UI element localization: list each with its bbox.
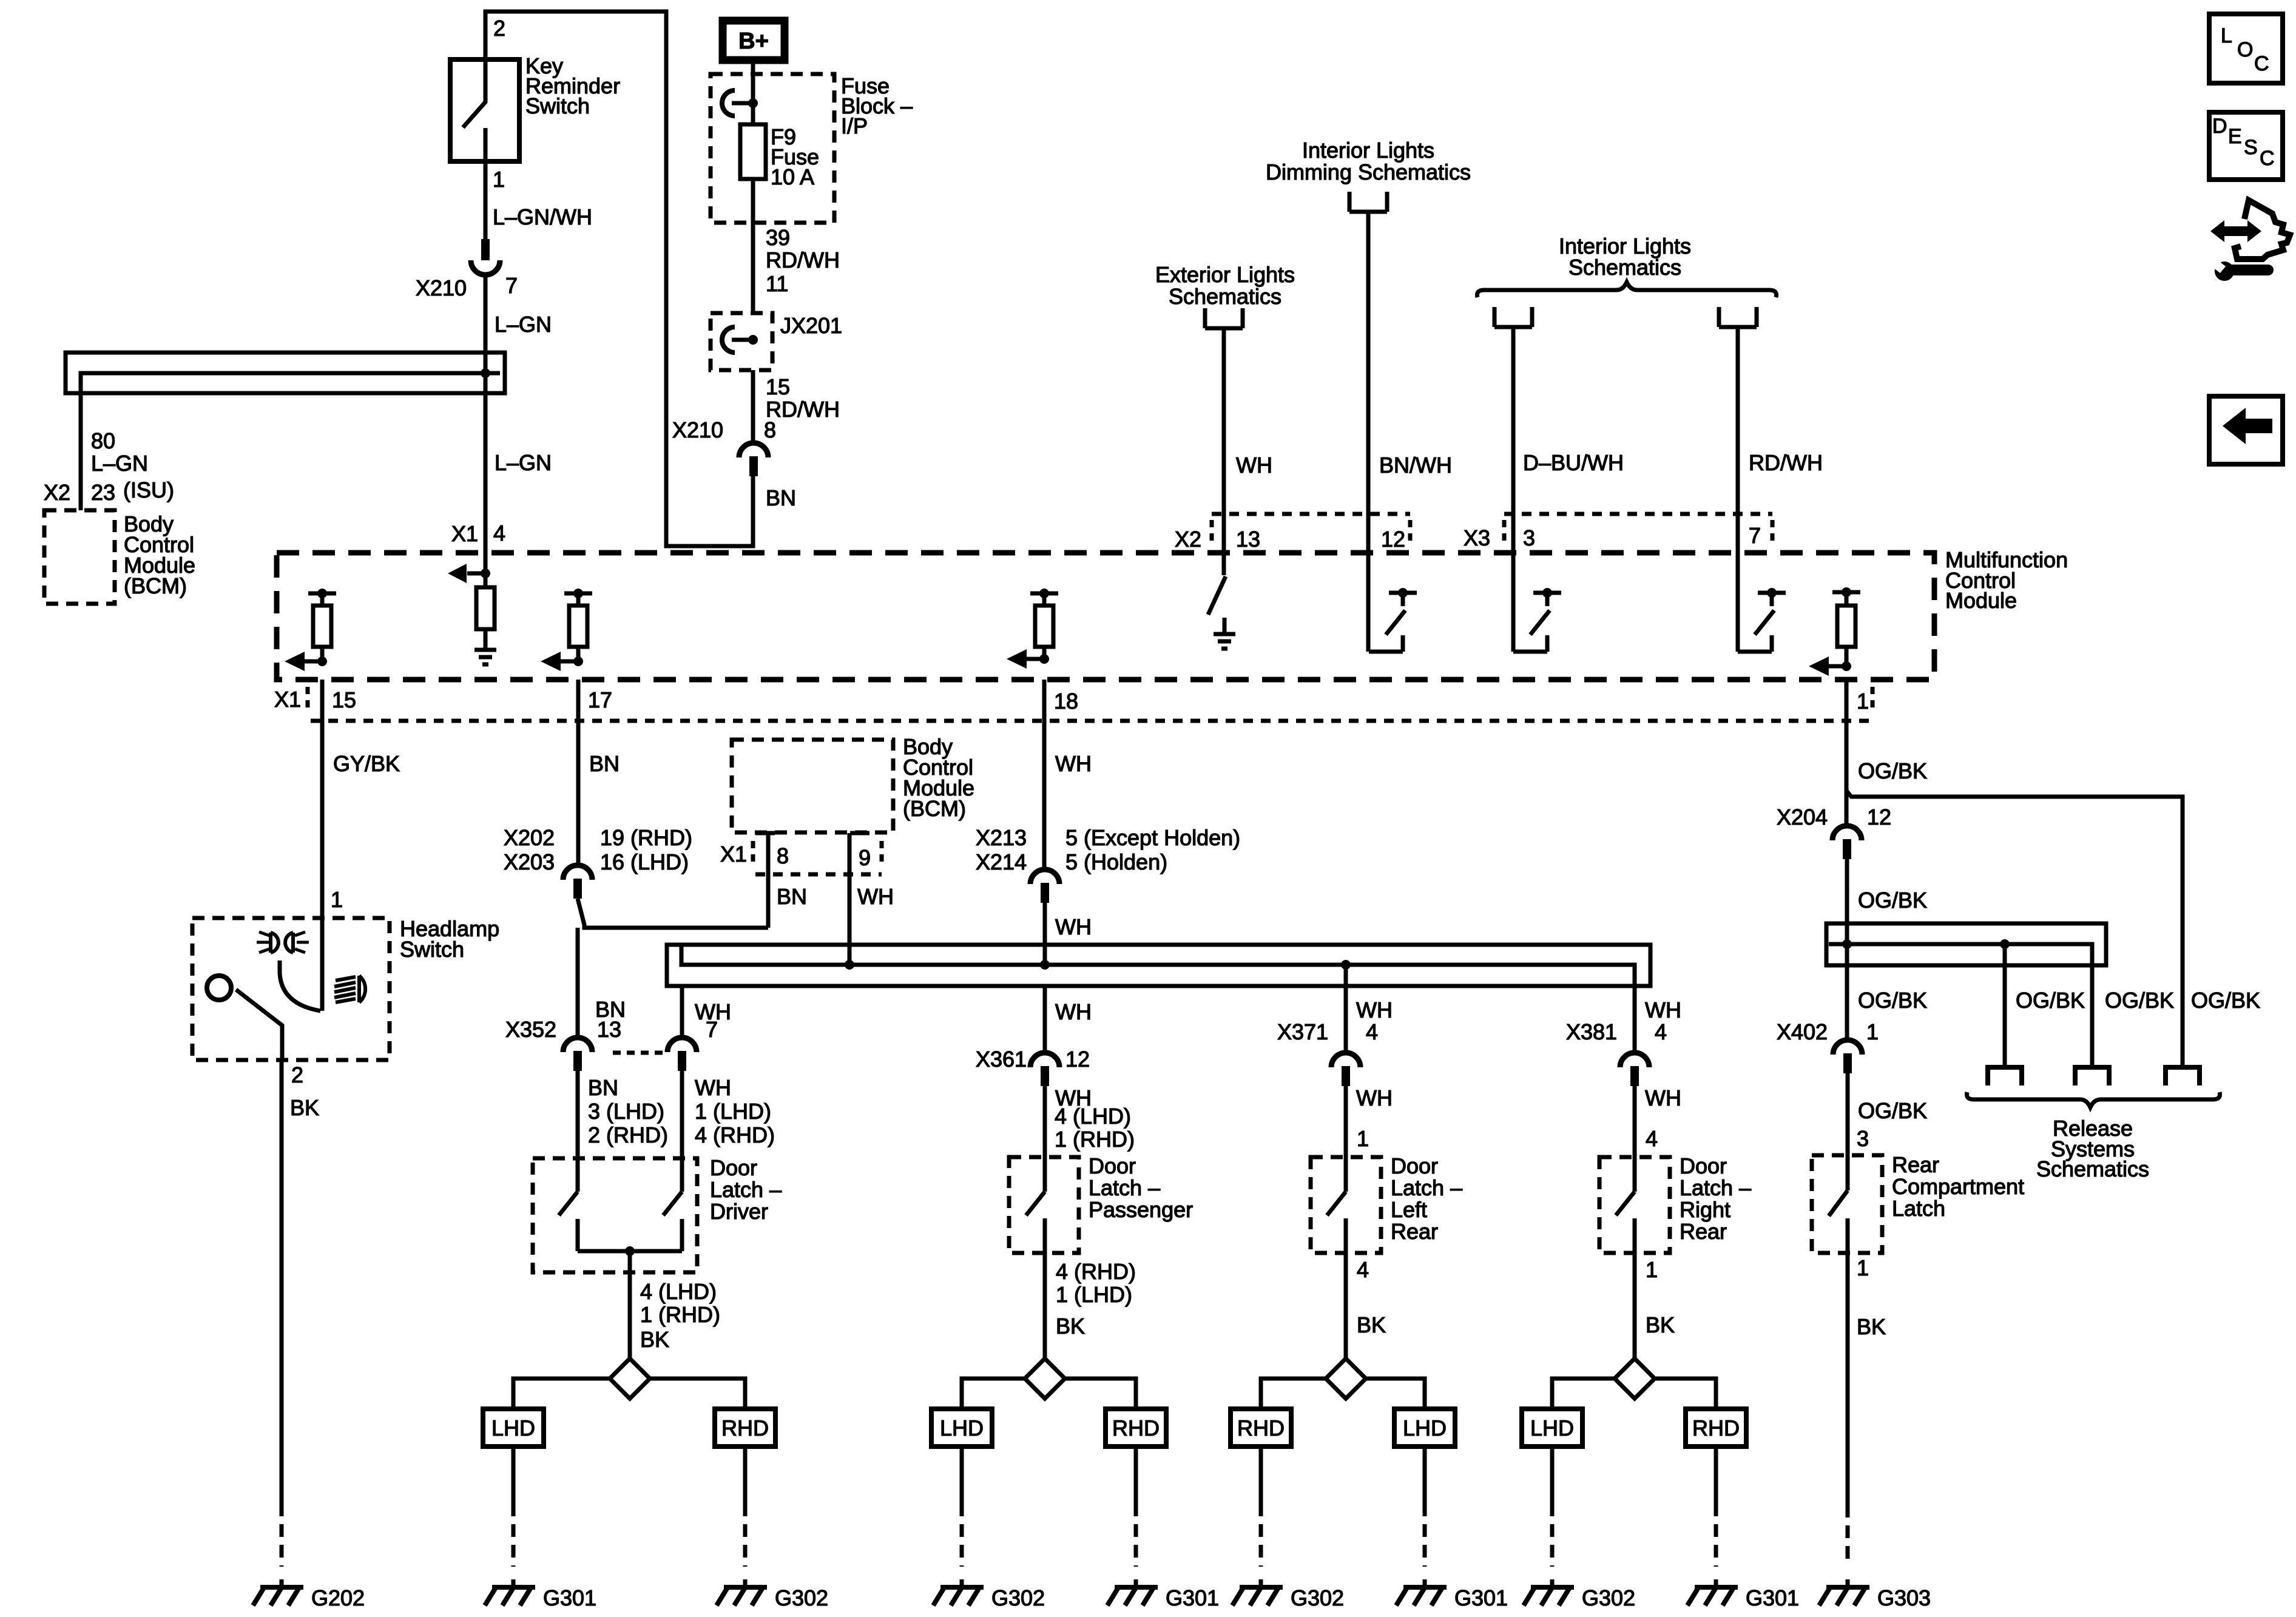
separator dots right of pin 1 <box>1871 687 1875 714</box>
label BN pin17 <box>589 751 620 776</box>
left rear latch blade <box>1327 1192 1346 1215</box>
svg-text:1: 1 <box>1866 1019 1879 1044</box>
svg-text:G301: G301 <box>1454 1585 1508 1610</box>
label RD/WH right <box>1749 450 1823 475</box>
svg-text:D: D <box>2212 115 2227 138</box>
svg-text:7: 7 <box>706 1017 718 1042</box>
svg-text:Switch: Switch <box>400 937 464 962</box>
label WH above X352-7 <box>695 999 731 1024</box>
svg-text:LHD: LHD <box>1403 1416 1447 1440</box>
connector X371 <box>1331 1053 1360 1086</box>
svg-text:X1: X1 <box>720 842 747 866</box>
svg-text:X203: X203 <box>504 849 555 874</box>
wire GY/BK MCM X1-15 to headlamp switch <box>320 680 325 1011</box>
fuse clip in JX201 <box>722 327 758 353</box>
svg-text:12: 12 <box>1381 527 1405 552</box>
svg-text:BK: BK <box>640 1327 669 1352</box>
label pin 12 X361 <box>1065 1047 1090 1072</box>
head lamp icon <box>334 976 365 1002</box>
wire RHD passenger to ground <box>1134 1447 1138 1567</box>
rear latch blade <box>1829 1190 1848 1216</box>
wire L-GN from X210-7 to MCM X1-4 <box>484 275 488 553</box>
wire X402 to rear latch <box>1846 1073 1850 1190</box>
label pin 4 top <box>493 521 505 545</box>
label OG/BK drop right <box>2191 988 2260 1013</box>
svg-text:L–GN/WH: L–GN/WH <box>493 204 592 229</box>
branch wires left rear <box>1261 1379 1425 1409</box>
label pin 1 left rear top <box>1357 1126 1369 1151</box>
label 2 (RHD) <box>588 1122 668 1147</box>
svg-text:OG/BK: OG/BK <box>1858 988 1927 1013</box>
svg-text:Door: Door <box>1391 1153 1438 1178</box>
svg-text:L–GN: L–GN <box>91 451 148 476</box>
svg-text:OG/BK: OG/BK <box>1858 1098 1927 1123</box>
park lamp icon <box>257 932 309 953</box>
ground G301 right rear <box>1687 1579 1738 1605</box>
label Exterior Lights Schematics <box>1155 262 1295 309</box>
svg-text:Module: Module <box>1945 588 2017 613</box>
label Door Latch - Passenger <box>1089 1153 1193 1222</box>
DESC navigation box <box>2209 112 2283 180</box>
label BK rear latch <box>1857 1314 1886 1339</box>
label X361 <box>976 1047 1027 1072</box>
label Key Reminder Switch <box>525 53 620 118</box>
label 4 (RHD) passenger <box>1056 1259 1136 1284</box>
svg-text:G301: G301 <box>1166 1585 1219 1610</box>
label pin 8 <box>777 843 789 868</box>
separator dots right of 7 <box>1771 520 1775 545</box>
svg-text:BN: BN <box>588 1075 618 1100</box>
svg-text:17: 17 <box>588 687 612 712</box>
LHD box left rear <box>1394 1409 1455 1447</box>
svg-text:X213: X213 <box>976 825 1027 850</box>
svg-text:X214: X214 <box>976 849 1027 874</box>
splice pack bus bar <box>81 373 500 510</box>
label RD/WH upper <box>766 248 840 272</box>
rear compartment latch box <box>1812 1155 1882 1253</box>
MCM pin 4 resistor <box>476 587 495 629</box>
label WH below X371 <box>1356 1085 1393 1110</box>
wire WH bus to X371 <box>1344 965 1348 1053</box>
wire WH bus to X352-7 <box>680 988 684 1039</box>
svg-text:1 (LHD): 1 (LHD) <box>695 1099 771 1124</box>
off-page connector to exterior lights <box>1205 308 1243 328</box>
svg-text:RHD: RHD <box>1112 1416 1160 1440</box>
ground G302 passenger <box>933 1579 984 1605</box>
connector X402 <box>1833 1040 1862 1073</box>
svg-text:Door: Door <box>1089 1153 1136 1178</box>
svg-text:X402: X402 <box>1777 1019 1828 1044</box>
right rear latch blade <box>1616 1192 1635 1215</box>
label X1 bottom <box>274 687 301 712</box>
svg-text:G301: G301 <box>1746 1585 1799 1610</box>
label G301 right rear <box>1746 1585 1799 1610</box>
driver latch left blade <box>559 1192 578 1215</box>
wire WH X213 to bus <box>1043 903 1047 965</box>
label pin 4 left rear bottom <box>1357 1257 1369 1282</box>
label BN above X352 <box>595 997 626 1022</box>
svg-text:RD/WH: RD/WH <box>766 397 840 422</box>
svg-text:10 A: 10 A <box>771 164 814 189</box>
svg-text:G302: G302 <box>1291 1585 1344 1610</box>
connector X213/X214 <box>1030 869 1059 903</box>
label pin 1 right rear bottom <box>1646 1257 1658 1282</box>
label 5 (Holden) <box>1065 849 1167 874</box>
svg-text:X352: X352 <box>505 1017 556 1042</box>
connector X361 <box>1030 1053 1059 1086</box>
svg-text:Passenger: Passenger <box>1089 1197 1193 1222</box>
label BN <box>766 485 796 510</box>
svg-text:16 (LHD): 16 (LHD) <box>600 849 689 874</box>
ground G302 driver <box>717 1579 767 1605</box>
label WH below X352-7 <box>695 1075 731 1100</box>
wire B+ loop from X210 pin 8 BN up over to key reminder switch pin 2 <box>485 12 753 546</box>
svg-text:OG/BK: OG/BK <box>2191 988 2260 1013</box>
label 4 (RHD) <box>695 1122 775 1147</box>
label BK passenger <box>1056 1314 1085 1338</box>
junction dot X213 <box>1040 960 1050 970</box>
body control module BCM box (center) <box>732 740 893 832</box>
label pin 1 rear latch <box>1857 1255 1869 1280</box>
label pin 12 X204 <box>1867 805 1891 829</box>
ground G202 <box>253 1579 303 1605</box>
svg-text:Compartment: Compartment <box>1892 1174 2024 1199</box>
label Door Latch - Left Rear <box>1391 1153 1462 1244</box>
wire RHD driver to ground <box>743 1447 748 1567</box>
wire BK headlamp switch down <box>280 1060 284 1504</box>
headlamp switch wiper arc <box>280 960 320 1011</box>
fuse block I/P box <box>711 74 834 223</box>
label pin 1 <box>493 167 505 192</box>
connector X210 pin 7 <box>471 239 500 275</box>
label pin 12 <box>1381 527 1405 552</box>
separator dots X1 bottom <box>306 687 310 714</box>
svg-text:Latch –: Latch – <box>1680 1175 1751 1200</box>
svg-text:X204: X204 <box>1777 805 1828 829</box>
svg-text:BN: BN <box>777 884 807 909</box>
svg-text:9: 9 <box>859 845 871 870</box>
svg-text:5 (Except Holden): 5 (Except Holden) <box>1065 825 1240 850</box>
svg-text:Rear: Rear <box>1680 1219 1727 1244</box>
label D-BU/WH <box>1523 450 1624 475</box>
wire X371 to left rear latch <box>1344 1086 1348 1192</box>
label G302 left rear <box>1291 1585 1344 1610</box>
wire RD/WH to MCM X3-7 <box>1736 327 1740 652</box>
wire RHD right rear to ground <box>1714 1447 1718 1567</box>
svg-text:I/P: I/P <box>841 113 868 138</box>
svg-text:WH: WH <box>1356 998 1393 1022</box>
wire WH BCM pin 9 to bus <box>848 833 852 965</box>
wire F9 to JX201 <box>751 179 755 313</box>
svg-text:Rear: Rear <box>1892 1152 1939 1177</box>
svg-text:BN: BN <box>766 485 796 510</box>
svg-text:WH: WH <box>1645 1085 1681 1110</box>
svg-text:JX201: JX201 <box>780 313 842 338</box>
svg-text:1: 1 <box>1646 1257 1658 1282</box>
svg-text:4: 4 <box>493 521 505 545</box>
BCM pin row dotted <box>755 873 882 877</box>
separator dots X2 <box>1210 520 1214 545</box>
label Interior Lights Dimming Schematics <box>1266 138 1471 184</box>
svg-text:4: 4 <box>1357 1257 1369 1282</box>
left rear latch output wire <box>1344 1218 1348 1359</box>
svg-text:39: 39 <box>766 225 790 250</box>
MCM pin 4 arrow <box>448 553 490 587</box>
svg-text:8: 8 <box>777 843 789 868</box>
label pin 17 <box>588 687 612 712</box>
svg-text:RHD: RHD <box>1237 1416 1285 1440</box>
RHD box passenger <box>1106 1409 1166 1447</box>
driver latch right blade <box>663 1192 682 1215</box>
branch wires right rear <box>1552 1379 1716 1409</box>
wire WH bus to X381 <box>1633 986 1637 1053</box>
connector X381 <box>1620 1053 1649 1086</box>
back arrow navigation box <box>2209 396 2283 464</box>
junction dot OG/BK main <box>1842 939 1852 949</box>
driver latch output wires <box>578 1219 682 1359</box>
label (ISU) <box>123 478 174 502</box>
label pin 23 <box>91 480 115 505</box>
label OG/BK 1 <box>1858 758 1927 783</box>
wire BN/WH to MCM X2-12 <box>1366 212 1371 652</box>
MCM pin 3 switch <box>1513 588 1561 652</box>
splice pack S238 outer box <box>66 353 505 393</box>
label WH pin18 <box>1055 751 1092 776</box>
ground G302 left rear <box>1232 1579 1283 1605</box>
svg-text:3: 3 <box>1857 1126 1869 1151</box>
svg-text:12: 12 <box>1065 1047 1090 1072</box>
svg-text:X361: X361 <box>976 1047 1027 1072</box>
label pin 7 X352 <box>706 1017 718 1042</box>
label X202 <box>504 825 555 850</box>
label BK left rear <box>1357 1312 1386 1337</box>
wire LHD passenger to ground <box>960 1447 964 1567</box>
wire OG/BK bus to X402 <box>1845 965 1849 1041</box>
BCM pin 9 bracket <box>850 831 869 836</box>
svg-text:G301: G301 <box>543 1585 596 1610</box>
svg-text:X210: X210 <box>416 275 467 300</box>
svg-text:X381: X381 <box>1566 1019 1617 1044</box>
svg-text:WH: WH <box>1356 1085 1393 1110</box>
svg-text:13: 13 <box>597 1017 621 1042</box>
svg-text:G302: G302 <box>991 1585 1045 1610</box>
off-page connector interior left <box>1494 307 1532 327</box>
label 16 (LHD) <box>600 849 689 874</box>
svg-text:4 (LHD): 4 (LHD) <box>1055 1104 1131 1129</box>
svg-text:RHD: RHD <box>721 1416 769 1440</box>
svg-text:4 (RHD): 4 (RHD) <box>1056 1259 1136 1284</box>
MCM pin 1 sense resistor and arrow <box>1809 587 1860 676</box>
label WH exterior <box>1236 453 1272 478</box>
label pin 4 X381 <box>1655 1019 1667 1044</box>
wire WH to MCM X2-13 <box>1222 328 1226 575</box>
label L-GN at splice drop <box>91 451 148 476</box>
label G302 driver <box>775 1585 828 1610</box>
RHD box left rear <box>1231 1409 1291 1447</box>
svg-text:23: 23 <box>91 480 115 505</box>
key reminder switch blade <box>463 101 486 127</box>
connector X210 pin 8 <box>739 443 768 476</box>
svg-text:BN/WH: BN/WH <box>1379 453 1452 478</box>
svg-text:15: 15 <box>766 374 790 399</box>
svg-text:13: 13 <box>1236 527 1260 552</box>
svg-text:2: 2 <box>493 16 505 41</box>
wire WH into driver latch <box>680 1071 684 1192</box>
label WH below X361 <box>1055 1085 1092 1110</box>
rear latch output wire <box>1846 1218 1850 1505</box>
key reminder switch pin 2 lead <box>484 59 488 103</box>
svg-text:BK: BK <box>290 1095 319 1120</box>
junction dot X371 <box>1341 960 1351 970</box>
label OG/BK 2 <box>1858 888 1927 913</box>
connector row X3 dotted line <box>1504 512 1772 516</box>
label G302 right rear <box>1582 1585 1635 1610</box>
door latch left rear box <box>1311 1157 1381 1253</box>
off-page connector to dimming schematics <box>1349 192 1387 212</box>
splice diamond passenger <box>1025 1359 1065 1399</box>
svg-text:Schematics: Schematics <box>1169 284 1281 309</box>
svg-text:3: 3 <box>1523 525 1535 550</box>
label X1 BCM <box>720 842 747 866</box>
svg-text:Switch: Switch <box>525 93 590 118</box>
label wire L-GN/WH <box>493 204 592 229</box>
wire LHD left rear to ground <box>1423 1447 1427 1567</box>
label circuit 39 <box>766 225 790 250</box>
wire X204 to OG/BK bus <box>1845 859 1849 965</box>
svg-text:12: 12 <box>1867 805 1891 829</box>
MCM pin 17 sense resistor and arrow <box>541 589 592 671</box>
release terminal left <box>1985 1067 2024 1085</box>
svg-text:11: 11 <box>766 271 788 296</box>
label G301 driver <box>543 1585 596 1610</box>
svg-text:BN: BN <box>589 751 620 776</box>
connector X204 <box>1832 826 1862 859</box>
svg-text:C: C <box>2254 52 2269 75</box>
wire B+ to fuse clip <box>751 60 755 124</box>
svg-text:WH: WH <box>857 884 894 909</box>
svg-text:Latch –: Latch – <box>710 1177 782 1202</box>
svg-text:BK: BK <box>1857 1314 1886 1339</box>
svg-text:8: 8 <box>764 417 776 442</box>
label pin 9 <box>859 845 871 870</box>
key reminder switch pin 1 lead <box>484 128 488 239</box>
svg-text:4: 4 <box>1655 1019 1667 1044</box>
wire WH bus to X361 <box>1043 986 1047 1053</box>
label X210 <box>416 275 467 300</box>
wire RHD left rear to ground <box>1259 1447 1263 1567</box>
svg-text:2: 2 <box>291 1062 303 1087</box>
svg-text:Latch: Latch <box>1892 1196 1945 1221</box>
label pin 3 <box>1523 525 1535 550</box>
ground G301 left rear <box>1396 1579 1447 1605</box>
label BN below X352 <box>588 1075 618 1100</box>
splice diamond left rear <box>1326 1359 1366 1399</box>
svg-text:X210: X210 <box>672 417 723 442</box>
OG/BK splice bus outer box <box>1826 923 2106 965</box>
headlamp switch off position circle <box>207 976 231 1000</box>
svg-text:WH: WH <box>1645 998 1681 1022</box>
wire LHD right rear to ground <box>1550 1447 1555 1567</box>
svg-text:B+: B+ <box>738 29 769 54</box>
wire D-BU/WH to MCM X3-3 <box>1511 327 1516 652</box>
label X381 <box>1566 1019 1617 1044</box>
svg-text:LHD: LHD <box>940 1416 984 1440</box>
svg-text:(ISU): (ISU) <box>123 478 174 502</box>
body control module BCM box (left) <box>44 510 115 604</box>
right rear latch output wire <box>1633 1218 1637 1359</box>
splice diamond driver <box>610 1359 650 1399</box>
WH splice bus outer box <box>667 945 1650 986</box>
headlamp switch blade to pin 2 <box>236 990 282 1060</box>
label OG/BK drop middle <box>2105 988 2174 1013</box>
RHD box right rear <box>1686 1409 1746 1447</box>
svg-text:GY/BK: GY/BK <box>333 751 400 776</box>
branch wires passenger <box>962 1379 1136 1409</box>
label pin 8 <box>764 417 776 442</box>
MCM pin 18 sense resistor and arrow <box>1007 589 1058 669</box>
key reminder switch S1 box <box>450 59 519 161</box>
label X203 <box>504 849 555 874</box>
svg-text:BK: BK <box>1056 1314 1085 1338</box>
label Rear Compartment Latch <box>1892 1152 2024 1221</box>
svg-text:X3: X3 <box>1464 525 1490 550</box>
wire BK dashed to G202 <box>280 1504 284 1567</box>
off-page connector interior right <box>1719 307 1757 327</box>
svg-text:E: E <box>2228 125 2242 148</box>
wire X381 to right rear latch <box>1633 1086 1637 1192</box>
svg-text:Schematics: Schematics <box>1568 255 1681 280</box>
wire BK dashed to G303 <box>1846 1505 1850 1567</box>
separator dots X3 <box>1502 520 1507 545</box>
label OG/BK 3 <box>1858 988 1927 1013</box>
splice diamond right rear <box>1615 1359 1655 1399</box>
svg-text:OG/BK: OG/BK <box>2105 988 2174 1013</box>
label BN/WH <box>1379 453 1452 478</box>
connector link dotted X352 <box>613 1051 666 1055</box>
svg-text:RD/WH: RD/WH <box>766 248 840 272</box>
MCM pin 4 internal ground <box>474 629 496 664</box>
LHD box driver <box>483 1409 544 1447</box>
connector row X2 dotted line <box>1212 512 1410 516</box>
svg-text:1: 1 <box>331 887 343 912</box>
label G301 passenger <box>1166 1585 1219 1610</box>
label G302 passenger <box>991 1585 1045 1610</box>
svg-text:X1: X1 <box>451 521 478 546</box>
wire BN below X210-8 <box>751 476 755 486</box>
label BK headlamp <box>290 1095 319 1120</box>
separator dots right of 9 <box>880 841 884 868</box>
label pin 4 X371 <box>1366 1019 1378 1044</box>
svg-text:X2: X2 <box>44 480 70 505</box>
label L-GN upper <box>495 312 552 337</box>
fuse clip upper <box>722 90 758 116</box>
wire LHD driver to ground <box>512 1447 516 1567</box>
label G301 left rear <box>1454 1585 1508 1610</box>
label X371 <box>1277 1019 1328 1044</box>
svg-text:Driver: Driver <box>710 1199 768 1224</box>
svg-text:15: 15 <box>332 687 356 712</box>
label WH above bus <box>1055 914 1092 939</box>
vehicle repair icon <box>2209 200 2290 281</box>
svg-text:4: 4 <box>1366 1019 1378 1044</box>
MCM pin 7 switch <box>1738 588 1786 652</box>
wire WH MCM X1-18 to X213 <box>1042 680 1047 870</box>
svg-text:S: S <box>2244 136 2258 159</box>
brace over interior lights drops <box>1477 282 1776 297</box>
LHD box right rear <box>1522 1409 1582 1447</box>
svg-text:Exterior Lights: Exterior Lights <box>1155 262 1295 287</box>
svg-text:7: 7 <box>1749 523 1761 548</box>
